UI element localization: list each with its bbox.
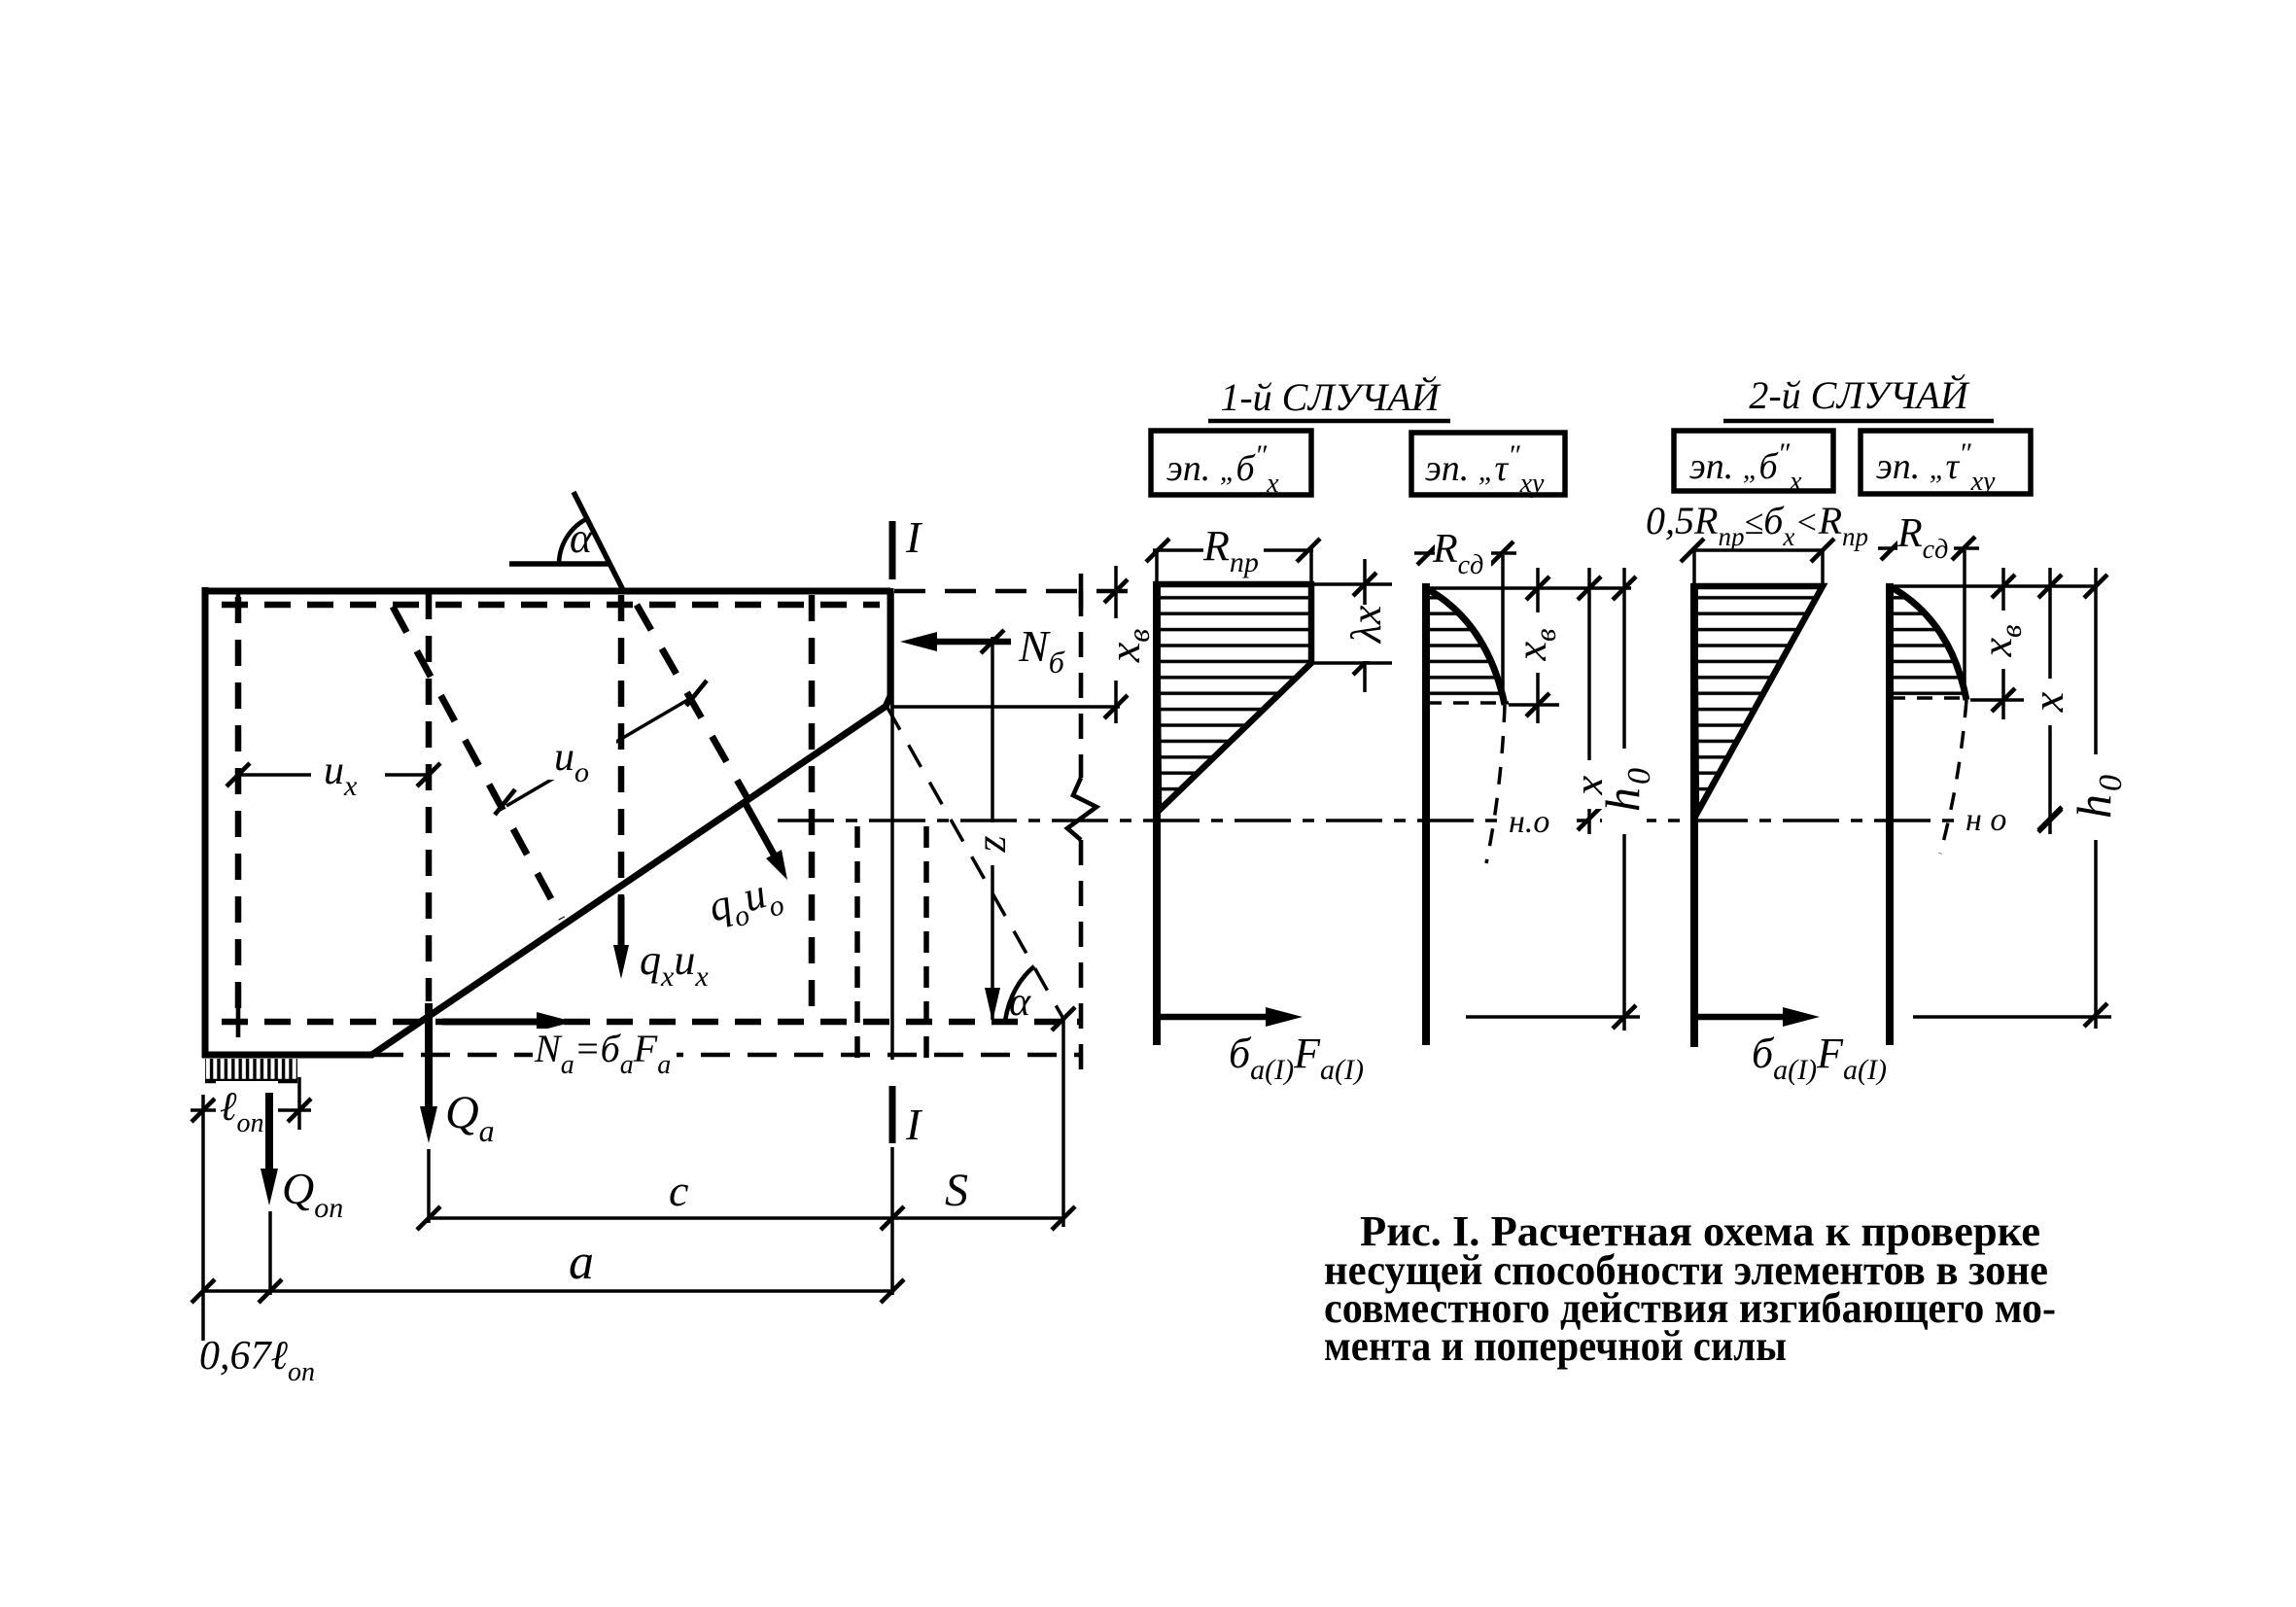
initial crack dashed diagonal 2 xyxy=(637,605,748,800)
svg-text:2-й СЛУЧАЙ: 2-й СЛУЧАЙ xyxy=(1749,373,1969,417)
beam outline: bottom edge xyxy=(202,1052,372,1059)
svg-text:0,67ℓоп: 0,67ℓоп xyxy=(199,1334,315,1387)
svg-text:a: a xyxy=(569,1235,594,1290)
initial crack dashed diagonal 1 xyxy=(393,607,562,919)
svg-text:эп. „б″х: эп. „б″х xyxy=(1689,437,1802,497)
tick on inner top line at left dashed vertical xyxy=(236,589,241,622)
svg-text:Qоп: Qоп xyxy=(282,1164,343,1224)
inner dashed rectangle: right xyxy=(809,595,816,1022)
l_op left extension vertical xyxy=(201,1095,205,1341)
N_a label xyxy=(533,1029,677,1083)
svg-text:qouo: qouo xyxy=(703,865,787,939)
svg-text:α: α xyxy=(1009,980,1031,1025)
R_sd right extension vertical case2 xyxy=(1963,550,1966,697)
crack tip horizontal thin line xyxy=(890,705,1120,709)
N_b force arrow xyxy=(923,639,1011,646)
h_0 dimension case1 xyxy=(1622,568,1626,1031)
s dimension line xyxy=(892,1216,1063,1220)
svg-text:Qa: Qa xyxy=(445,1087,495,1148)
stirrup dashed vertical u_x xyxy=(426,593,433,1001)
u_x label xyxy=(311,747,385,797)
box ep sigma_x (case2) xyxy=(1674,431,1833,491)
h_0 dimension case2 xyxy=(2094,568,2098,1029)
svg-text:н.о: н.о xyxy=(1509,804,1549,840)
R_sd right extension vertical case1 xyxy=(1501,555,1505,702)
q_o u_o force arrow xyxy=(745,802,778,861)
x dimension case2 xyxy=(2048,568,2052,834)
a dimension line xyxy=(203,1289,892,1293)
x_v dimension case1 xyxy=(1536,568,1540,723)
tick crossing top dashed line at x=1112 xyxy=(1079,574,1084,609)
l_op label xyxy=(216,1081,278,1137)
tau curve region case2 hatched xyxy=(1890,586,1966,700)
neutral axis dash-dot line xyxy=(778,819,1957,822)
inclined crack (solid diagonal) xyxy=(370,706,887,1056)
n.o. label case2 xyxy=(1964,797,2024,838)
q_x u_x force arrow xyxy=(618,896,625,961)
s right boundary thin vertical xyxy=(1061,1019,1065,1227)
y=720 extension case2 xyxy=(1970,698,2024,702)
z label (rotated) xyxy=(978,822,1009,865)
tau hatch bottom dashed case1 xyxy=(1426,701,1509,705)
tau top extension line case1 xyxy=(1426,586,1631,590)
R_pr extension verticals xyxy=(1155,550,1159,583)
tau curve case1 xyxy=(1426,588,1505,705)
svg-text:z: z xyxy=(967,835,1015,853)
dashed vertical below right (pair 1) xyxy=(854,826,860,1058)
tick at crack extension end xyxy=(1052,1007,1075,1031)
svg-text:хв: хв xyxy=(1508,629,1562,662)
tick on inner bottom line at left dashed vertical xyxy=(236,1006,241,1037)
l_op right extension vertical xyxy=(297,1077,301,1130)
inner dashed bottom line extended (N_a line) xyxy=(222,1019,1082,1026)
l_op dimension line xyxy=(191,1108,311,1112)
z dimension line xyxy=(991,637,994,1020)
svg-text:н о: н о xyxy=(1966,802,2006,838)
stirrup dashed vertical q_x xyxy=(618,595,625,896)
svg-text:α: α xyxy=(570,514,593,562)
alpha bottom arc xyxy=(1005,966,1034,1021)
lambda-x top extension xyxy=(1314,582,1392,586)
svg-text:эп. „τ″ху: эп. „τ″ху xyxy=(1876,437,1996,497)
tau hatch bottom dashed case2 xyxy=(1890,696,1970,700)
sigma ext verticals case2 xyxy=(1692,550,1696,583)
section line I-I bottom stub xyxy=(889,1086,896,1143)
svg-text:c: c xyxy=(669,1166,688,1215)
svg-text:I: I xyxy=(905,1100,923,1149)
beam outline: top edge xyxy=(202,588,890,595)
lambda-x label xyxy=(1345,605,1388,661)
break (zigzag) symbol xyxy=(1067,778,1096,840)
Q_op lower thin extension xyxy=(268,1211,272,1295)
R_sd dimension case1 xyxy=(1414,551,1516,555)
svg-text:х: х xyxy=(2023,691,2072,713)
n.o. tick case2 xyxy=(2038,809,2062,832)
sigma axis case2 xyxy=(1690,583,1698,1047)
section line I-I through beam xyxy=(890,591,894,1060)
x_v tick bottom xyxy=(1104,695,1128,718)
h_0 bottom extension case2 xyxy=(1913,1015,2111,1019)
Q_a lower thin extension xyxy=(427,1149,431,1223)
y=725 extension case1 xyxy=(1509,703,1559,707)
lambda-x dimension line xyxy=(1363,559,1367,692)
angle alpha indicator above beam: horizontal reference xyxy=(509,561,609,567)
u_x dimension line xyxy=(238,773,429,777)
top dashed extension right of beam xyxy=(894,589,1128,594)
tau top extension case2 xyxy=(1890,584,2098,588)
Q_a force arrow xyxy=(425,1003,433,1124)
dashed vertical below right (pair 2) xyxy=(923,826,929,1058)
support pad hatched xyxy=(205,1059,297,1080)
c dimension line xyxy=(429,1216,892,1220)
sigma dim line case2 xyxy=(1692,548,1823,552)
svg-text:хв: хв xyxy=(1973,625,2028,658)
box ep tau_xy (case2) xyxy=(1861,431,2031,494)
u_o label xyxy=(544,731,616,780)
tau curve region case1 hatched xyxy=(1426,588,1505,705)
inner dashed rectangle: left xyxy=(235,597,242,1022)
svg-text:бa(I)Fa(I): бa(I)Fa(I) xyxy=(1752,1030,1887,1086)
beam outline: left edge xyxy=(202,587,209,1058)
svg-text:эп. „τ″ху: эп. „τ″ху xyxy=(1425,439,1545,499)
sigma_a F_a arrow case1 xyxy=(1159,1014,1281,1021)
sigma diagram case1: hatched trapezoid xyxy=(1157,584,1311,811)
svg-text:S: S xyxy=(945,1165,968,1216)
svg-text:1-й СЛУЧАЙ: 1-й СЛУЧАЙ xyxy=(1220,375,1441,419)
crack extension dashed diagonal to alpha xyxy=(887,708,1063,1019)
tau axis case2 xyxy=(1886,583,1894,1045)
sigma diagram case2: hatched triangle xyxy=(1694,586,1823,815)
x_v dimension case2 xyxy=(2001,568,2005,719)
h_0 bottom extension case1 xyxy=(1466,1015,1640,1019)
box ep sigma_x (case1) xyxy=(1151,431,1311,495)
section line I-I top stub xyxy=(889,521,896,579)
sigma_a F_a arrow case2 xyxy=(1696,1014,1798,1021)
x_v label near beam (rotated) xyxy=(1104,618,1147,679)
angle alpha indicator above beam: arc xyxy=(559,518,588,564)
box ep tau_xy (case1) xyxy=(1411,433,1565,495)
svg-text:мента и поперечной силы: мента и поперечной силы xyxy=(1324,1322,1787,1370)
svg-text:λх: λх xyxy=(1342,605,1390,645)
lambda-x bottom extension xyxy=(1314,661,1392,665)
bottom edge dashed extension xyxy=(374,1053,1082,1058)
svg-text:I: I xyxy=(905,512,923,562)
angle alpha indicator above beam: inclined line xyxy=(574,492,623,590)
R_pr dimension xyxy=(1153,548,1313,552)
u_o dimension line xyxy=(506,695,696,806)
sigma axis case1 xyxy=(1153,581,1161,1045)
x dimension case1 xyxy=(1587,568,1591,834)
R_sd dimension case2 xyxy=(1878,546,1979,550)
n.o. label case1 xyxy=(1507,799,1569,840)
svg-text:Nб: Nб xyxy=(1018,621,1065,680)
svg-text:0,5Rпр≤бх<Rпр: 0,5Rпр≤бх<Rпр xyxy=(1646,499,1868,551)
dashed beam extension vertical lower part xyxy=(1079,840,1084,1074)
tau parabola continuation dashed case1 xyxy=(1486,705,1505,863)
tau parabola continuation dashed case2 xyxy=(1940,700,1966,854)
Q_op force arrow xyxy=(265,1093,273,1186)
svg-text:qхuх: qхuх xyxy=(640,936,709,993)
section line I-I lower thin part xyxy=(890,1147,894,1295)
N_b tick xyxy=(981,630,1004,653)
beam outline: right edge above crack tip xyxy=(886,588,890,707)
N_a force arrow xyxy=(442,1019,554,1026)
tau axis case1 xyxy=(1422,583,1430,1045)
inner dashed rectangle: top xyxy=(222,602,880,609)
svg-text:эп. „б″х: эп. „б″х xyxy=(1166,439,1279,499)
tau curve case2 xyxy=(1890,586,1966,700)
dashed beam extension vertical with break xyxy=(1079,591,1084,778)
x_v dimension line near beam xyxy=(1114,566,1118,622)
svg-text:бa(I)Fa(I): бa(I)Fa(I) xyxy=(1229,1030,1364,1086)
x_v tick top xyxy=(1104,579,1128,603)
